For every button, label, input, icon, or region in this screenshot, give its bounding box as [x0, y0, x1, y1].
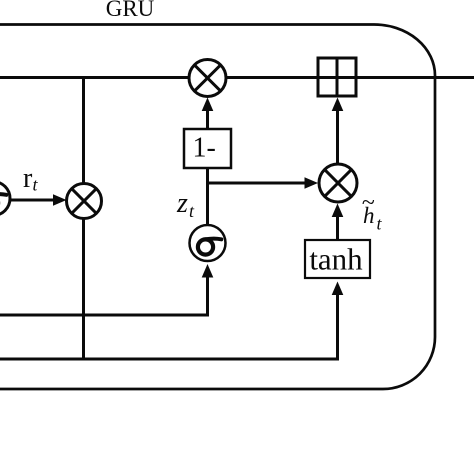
- svg-text:~: ~: [362, 190, 375, 216]
- sigma gate (update z_t): [190, 225, 226, 261]
- svg-text:r: r: [23, 163, 33, 194]
- wire middle bus to sigma with arrow: [0, 277, 208, 315]
- multiply gate (reset): [67, 184, 102, 219]
- wire r_t arrow from left sigma into reset multiply: [10, 199, 55, 202]
- svg-text:1-: 1-: [193, 133, 216, 164]
- wire bottom bus to tanh with arrow: [0, 294, 338, 359]
- tanh box: [305, 240, 370, 278]
- wire arrow from 1- box up into top multiply: [206, 110, 209, 129]
- wire arrow from candidate multiply up into concat box: [336, 111, 339, 164]
- wire h(t-1) to h(t) main horizontal line: [0, 76, 474, 79]
- 1- box: [184, 129, 231, 168]
- multiply gate (update, on h line): [189, 60, 226, 97]
- svg-text:z: z: [176, 188, 188, 219]
- wire arrow from tanh up into candidate multiply: [336, 216, 339, 240]
- wire vertical branch from h line down to reset multiply and bottom bus: [82, 78, 85, 360]
- wire z_t from sigma up to 1- box: [206, 168, 209, 226]
- svg-text:tanh: tanh: [309, 242, 363, 277]
- multiply gate (candidate): [319, 164, 357, 202]
- svg-text:GRU: GRU: [106, 0, 155, 21]
- concat box on h line: [318, 58, 356, 96]
- wire z_t branch arrow to candidate multiply: [208, 182, 307, 185]
- label h~_t (candidate hidden state): [362, 190, 383, 234]
- GRU cell boundary (rounded rectangle, cropped at left): [0, 25, 435, 390]
- sigma gate (reset, cropped at left edge): [0, 182, 10, 216]
